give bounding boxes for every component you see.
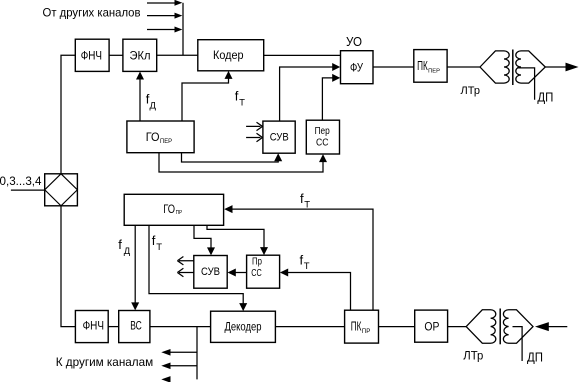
- arrowhead into PerSS bottom: [319, 154, 327, 162]
- block OR: [415, 310, 448, 342]
- svg-text:Д: Д: [150, 101, 157, 112]
- transformer LTr bottom right winding: [503, 310, 533, 343]
- svg-text:Т: Т: [304, 261, 310, 272]
- svg-text:ПЕР: ПЕР: [160, 139, 172, 145]
- wire fT GOpr to Dekoder: [149, 225, 243, 304]
- arrowhead input1: [175, 0, 183, 6]
- block PKper: [414, 50, 447, 83]
- wire Koder to FU: [264, 54, 341, 56]
- arrowhead output top right: [566, 63, 579, 72]
- arrowhead input3: [175, 27, 183, 33]
- svg-text:ЛТр: ЛТр: [463, 351, 483, 363]
- wire OR to transformer2: [448, 326, 467, 328]
- svg-text:ПР: ПР: [176, 210, 183, 216]
- svg-text:От других каналов: От других каналов: [43, 6, 141, 20]
- block Dekoder: [211, 311, 276, 342]
- svg-text:ПК: ПК: [351, 320, 362, 334]
- wire DP tap bottom: [513, 327, 523, 361]
- svg-text:СС: СС: [251, 267, 262, 279]
- wire Dekoder to PKpr: [275, 326, 344, 328]
- svg-text:ЭКл: ЭКл: [130, 51, 151, 63]
- wire transformer2 input line: [549, 326, 568, 328]
- svg-text:0,3...3,4: 0,3...3,4: [0, 174, 42, 188]
- wire GOper to SUV bottom: [182, 153, 279, 162]
- chevron arrow out of SUV2 left 1: [177, 257, 193, 265]
- arrowhead into PrSS right: [280, 269, 288, 277]
- wire hybrid left input: [11, 189, 45, 191]
- block VS: [119, 311, 150, 343]
- wire DP tap top: [517, 68, 535, 100]
- svg-text:ВС: ВС: [130, 321, 142, 333]
- wire PrSS to SUV2: [235, 272, 247, 274]
- svg-text:ПК: ПК: [417, 58, 428, 73]
- arrowhead to other channels 2: [161, 363, 170, 370]
- wire GOpr to PrSS top: [207, 225, 264, 248]
- svg-text:ГО: ГО: [146, 132, 160, 144]
- chevron arrow out of SUV2 left 2: [177, 268, 193, 276]
- wire GOpr to SUV2 top: [194, 225, 211, 248]
- wire FU to PKper: [373, 66, 414, 68]
- wire fD GOper to EKl: [139, 79, 141, 121]
- arrowhead into VS top: [131, 302, 139, 310]
- wire PKper to transformer: [447, 66, 480, 68]
- arrowhead to other channels 3: [161, 376, 170, 382]
- svg-text:ДП: ДП: [527, 351, 543, 365]
- svg-text:ФНЧ: ФНЧ: [83, 321, 104, 333]
- svg-text:Пер: Пер: [315, 125, 330, 137]
- wire fD GOpr to VS: [134, 225, 136, 303]
- svg-text:Декодер: Декодер: [225, 321, 262, 333]
- block PerSS: [306, 120, 339, 154]
- wire PKpr to PrSS fT: [287, 273, 350, 311]
- arrowhead into FU from PerSS: [332, 74, 340, 82]
- wire transformer output line: [545, 66, 566, 68]
- svg-text:ПЕР: ПЕР: [428, 69, 440, 75]
- block GOpr: [124, 194, 223, 225]
- wire VS to Dekoder: [150, 326, 211, 328]
- block GOper: [127, 121, 194, 153]
- svg-text:Т: Т: [156, 242, 162, 253]
- arrowhead to other channels 1: [161, 349, 170, 356]
- svg-text:Д: Д: [124, 246, 131, 257]
- arrowhead into Koder bottom: [225, 71, 233, 79]
- svg-text:f: f: [118, 237, 122, 252]
- wire PerSS to FU: [322, 78, 333, 120]
- wire FNCH2 to VS: [108, 326, 119, 328]
- transformer LTr bottom left winding: [466, 310, 496, 343]
- svg-text:ФУ: ФУ: [350, 63, 364, 75]
- arrowhead into SUV2 top: [207, 247, 215, 255]
- arrowhead into SUV bottom: [274, 153, 282, 161]
- transformer LTr top left winding: [480, 51, 509, 83]
- svg-text:ПР: ПР: [362, 328, 371, 335]
- wire GOper to PerSS bottom: [159, 153, 323, 172]
- svg-text:УО: УО: [346, 34, 362, 49]
- wire fT GOper to Koder: [182, 78, 229, 121]
- chevron arrow into SUV left 2: [246, 133, 262, 141]
- svg-text:ДП: ДП: [537, 91, 553, 105]
- block SUV bottom: [194, 256, 227, 289]
- svg-text:СС: СС: [316, 136, 329, 148]
- wire FNCH1 to EKl: [109, 54, 123, 56]
- arrowhead into GOpr right: [224, 205, 232, 213]
- svg-text:СУВ: СУВ: [201, 266, 220, 278]
- svg-text:Т: Т: [304, 200, 310, 211]
- arrowhead into EKl bottom: [136, 72, 144, 80]
- svg-text:К другим каналам: К другим каналам: [56, 355, 154, 369]
- wire hybrid bottom to FNCH2: [61, 206, 75, 327]
- svg-text:Пр: Пр: [252, 255, 262, 267]
- wire FNCH1 left to hybrid top: [61, 55, 75, 174]
- block FNCH top: [75, 39, 109, 71]
- wire EKl to Koder: [157, 54, 198, 56]
- svg-text:ОР: ОР: [424, 322, 439, 334]
- chevron arrow into SUV left 1: [246, 122, 262, 130]
- wire input arrows from other channels: [147, 3, 175, 30]
- wire PKpr to GOpr fT feedback: [233, 209, 374, 310]
- block EKl: [123, 39, 157, 71]
- wire collector vertical to EKl-Koder line: [182, 3, 184, 56]
- svg-text:ГО: ГО: [163, 204, 175, 216]
- block SUV top: [263, 121, 295, 153]
- wire PKpr to OR: [379, 326, 415, 328]
- block PKpr: [345, 310, 379, 343]
- arrowhead into SUV2 right: [228, 269, 236, 277]
- svg-text:СУВ: СУВ: [270, 132, 289, 144]
- svg-text:f: f: [235, 88, 239, 103]
- wire branch to other channels: [170, 327, 198, 380]
- transformer LTr top right winding: [516, 51, 546, 83]
- hybrid diamond: [45, 174, 78, 206]
- arrowhead into Dekoder top: [239, 303, 247, 311]
- transformer bottom core: [499, 309, 501, 345]
- block Koder: [198, 40, 264, 71]
- svg-text:Кодер: Кодер: [213, 50, 244, 62]
- svg-text:Т: Т: [239, 97, 245, 108]
- block FU: [341, 51, 374, 84]
- arrowhead into FU from SUV: [332, 63, 340, 71]
- svg-text:f: f: [152, 233, 156, 248]
- arrowhead input2: [175, 13, 183, 19]
- arrowhead into PrSS top: [260, 247, 268, 255]
- block PrSS: [247, 255, 280, 288]
- arrowhead input bottom right: [535, 322, 549, 331]
- block FNCH bottom: [75, 311, 108, 343]
- hybrid square: [45, 174, 78, 206]
- svg-text:ФНЧ: ФНЧ: [81, 51, 102, 63]
- transformer top core: [512, 50, 514, 86]
- wire SUV to FU: [280, 67, 333, 121]
- svg-text:ЛТр: ЛТр: [461, 85, 480, 97]
